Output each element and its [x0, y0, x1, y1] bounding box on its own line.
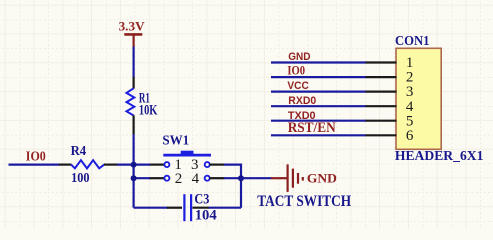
svg-text:5: 5 [406, 113, 414, 129]
pin 3 of CON1 [366, 84, 414, 100]
svg-text:IO0: IO0 [26, 149, 46, 164]
pin 1 of CON1 [366, 55, 414, 71]
svg-text:1: 1 [406, 55, 414, 71]
wire 3.3V to R1 [133, 47, 135, 78]
junction node A pin2 row [131, 175, 137, 181]
svg-text:RST/EN: RST/EN [288, 120, 336, 136]
wire R1 to node A [133, 134, 135, 165]
wire pin1 to node A [134, 164, 150, 166]
svg-text:R4: R4 [71, 144, 87, 159]
wire node A down to bottom rail [133, 165, 135, 208]
pin 6 of CON1 [366, 128, 414, 144]
resistor R1 [127, 77, 135, 134]
power bar symbol 3.3V [124, 34, 142, 47]
wire pin4 to node B [224, 177, 241, 179]
wire net RST/EN [271, 134, 366, 136]
wire node B to GND [241, 177, 271, 179]
svg-text:10K: 10K [139, 103, 158, 119]
svg-text:IO0: IO0 [287, 63, 305, 77]
connector CON1 body [396, 48, 441, 149]
svg-text:4: 4 [192, 171, 200, 187]
junction node B [238, 175, 244, 181]
bottom rail wire right [209, 207, 242, 209]
switch SW1 contact pin 3 [205, 162, 225, 167]
svg-text:2: 2 [175, 171, 183, 187]
net label VCC (header pin 3) [287, 80, 308, 92]
label R1 [139, 91, 150, 107]
pin number 3 [191, 157, 199, 173]
wire pin3 to node B [224, 165, 241, 208]
net label IO0 [26, 149, 46, 164]
pin 4 of CON1 [366, 99, 414, 115]
wire R4 to node A [117, 164, 134, 166]
power label 3.3V [119, 18, 146, 33]
value label 100 [71, 171, 89, 186]
svg-text:HEADER_6X1: HEADER_6X1 [395, 148, 484, 163]
svg-text:CON1: CON1 [395, 33, 430, 48]
wire pin2 to node A column [134, 177, 150, 179]
svg-text:100: 100 [71, 171, 89, 186]
wire net TXD0 [271, 120, 366, 122]
ground label GND [307, 171, 337, 186]
pin 2 of CON1 [366, 70, 414, 86]
value label 104 [195, 208, 217, 224]
svg-text:3.3V: 3.3V [119, 18, 146, 33]
net label RXD0 (header pin 4) [288, 95, 316, 107]
svg-text:3: 3 [406, 84, 414, 100]
pin number 1 [174, 157, 182, 173]
switch SW1 actuator [163, 151, 211, 155]
svg-text:104: 104 [195, 208, 217, 224]
pin 5 of CON1 [366, 113, 414, 129]
svg-text:6: 6 [406, 128, 414, 144]
label HEADER_6X1 [395, 148, 484, 163]
label SW1 [162, 132, 189, 147]
junction node A pin1 row [131, 162, 137, 168]
bottom rail wire left [134, 207, 168, 209]
wire net RXD0 [271, 105, 366, 107]
label R4 [71, 144, 87, 159]
svg-text:SW1: SW1 [162, 132, 189, 147]
svg-text:C3: C3 [194, 191, 209, 207]
svg-text:VCC: VCC [287, 80, 308, 92]
net label GND (header pin 1) [288, 51, 310, 63]
wire net IO0 [271, 76, 366, 78]
comment label TACT SWITCH [257, 193, 351, 210]
wire net GND [271, 61, 366, 63]
pin number 4 [192, 171, 200, 187]
label CON1 [395, 33, 430, 48]
svg-text:GND: GND [288, 51, 310, 63]
value label 10K [139, 103, 158, 119]
pin number 2 [175, 171, 183, 187]
switch SW1 contact pin 4 [205, 176, 225, 181]
net label IO0 (header pin 2) [287, 63, 305, 77]
net label RST/EN (header pin 6) [288, 120, 336, 136]
wire net VCC [271, 90, 366, 92]
capacitor C3 [167, 194, 209, 221]
svg-text:GND: GND [307, 171, 337, 186]
switch SW1 contact pin 2 [149, 176, 170, 181]
ground symbol [271, 164, 303, 192]
switch SW1 contact pin 1 [149, 162, 170, 167]
svg-text:TACT SWITCH: TACT SWITCH [257, 193, 351, 210]
label C3 [194, 191, 209, 207]
net label TXD0 (header pin 5) [288, 110, 316, 122]
resistor R4 [59, 160, 117, 168]
wire IO0 to R4 [9, 164, 60, 166]
